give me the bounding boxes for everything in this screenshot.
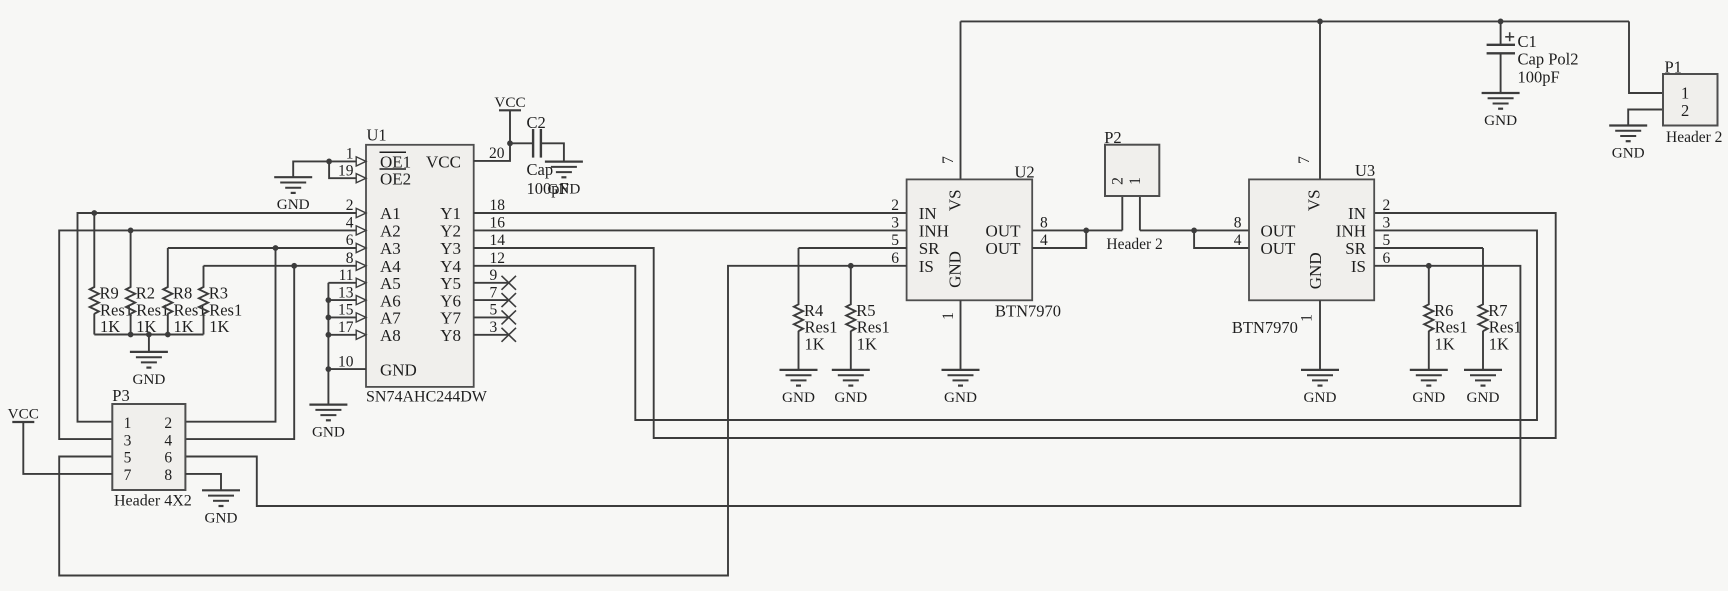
ground: U1 GND bbox=[309, 405, 347, 441]
svg-text:Y1: Y1 bbox=[440, 204, 461, 223]
ground: C2 GND bbox=[545, 162, 583, 198]
svg-text:4: 4 bbox=[1234, 232, 1242, 249]
ground: R6 GND bbox=[1410, 370, 1448, 406]
ground: pull-resistor GND bbox=[130, 352, 168, 388]
wire: net A3 (R8 - U1.A3) bbox=[168, 247, 356, 249]
wire: net Y2 (U1.Y2 - U2.INH) bbox=[474, 229, 907, 231]
wire: net A1 (P3.1 - R9 - U1.A1) bbox=[78, 213, 357, 422]
svg-text:Y5: Y5 bbox=[440, 274, 461, 293]
capacitor C2 (Cap 100pF) bbox=[527, 113, 569, 198]
wire: U1 OE2 (pin 19) tied to OE1 bbox=[329, 161, 356, 178]
ground: R5 GND bbox=[832, 370, 870, 406]
wire: P3 pin 7 to VCC bbox=[23, 422, 112, 474]
junction: rail/R2 bbox=[128, 332, 134, 338]
svg-text:GND: GND bbox=[945, 251, 964, 288]
svg-text:A5: A5 bbox=[380, 274, 401, 293]
svg-text:GND: GND bbox=[1467, 389, 1500, 406]
svg-text:5: 5 bbox=[490, 302, 498, 319]
junction: A4/P3.4 riser bbox=[291, 263, 297, 269]
wire: U3 GND pin 1 to ground bbox=[1319, 300, 1321, 370]
svg-text:A7: A7 bbox=[380, 309, 401, 328]
svg-text:U1: U1 bbox=[367, 126, 387, 145]
svg-text:INH: INH bbox=[1336, 222, 1366, 241]
junction: OE1/OE2 tie bbox=[326, 159, 332, 165]
junction: rail/R8 bbox=[165, 332, 171, 338]
svg-text:GND: GND bbox=[944, 389, 977, 406]
wire: net A2 (P3.3 - R2 - U1.A2) bbox=[59, 230, 356, 439]
junction: A2/R2 bbox=[128, 228, 134, 234]
wire: net A4 (R3 - U1.A4) bbox=[204, 265, 357, 267]
svg-text:VCC: VCC bbox=[426, 153, 461, 172]
wire: P1 pin 2 to ground bbox=[1628, 110, 1663, 126]
label: U3 designator bbox=[1355, 161, 1375, 180]
svg-text:IN: IN bbox=[919, 204, 937, 223]
junction: VCC / C2 tap bbox=[507, 140, 513, 146]
svg-text:17: 17 bbox=[338, 319, 354, 336]
svg-text:3: 3 bbox=[891, 215, 899, 232]
ground: R7 GND bbox=[1464, 370, 1502, 406]
svg-text:OE2: OE2 bbox=[380, 169, 411, 188]
svg-text:P1: P1 bbox=[1665, 58, 1682, 77]
label: U1 part number bbox=[366, 388, 488, 405]
IC U1 SN74AHC244DW body bbox=[356, 145, 474, 387]
connector P1 (Header 2) bbox=[1663, 58, 1722, 146]
svg-text:4: 4 bbox=[346, 215, 354, 232]
IC U2 BTN7970 body bbox=[907, 179, 1033, 300]
svg-text:5: 5 bbox=[124, 450, 132, 467]
power: VCC symbol at P3 bbox=[8, 406, 39, 423]
wire: C2 right plate to ground bbox=[541, 143, 564, 161]
svg-text:VCC: VCC bbox=[494, 94, 525, 111]
svg-text:A1: A1 bbox=[380, 204, 401, 223]
svg-text:3: 3 bbox=[490, 319, 498, 336]
pin numbers: U3 bbox=[1234, 156, 1391, 322]
ground: P1 GND bbox=[1609, 126, 1647, 162]
svg-text:U3: U3 bbox=[1355, 161, 1375, 180]
svg-text:OUT: OUT bbox=[1261, 239, 1297, 258]
junction: top rail / U3 VS bbox=[1317, 19, 1323, 25]
svg-text:GND: GND bbox=[1612, 145, 1645, 162]
wire: P3 pin 8 to ground bbox=[185, 474, 221, 490]
svg-text:Y3: Y3 bbox=[440, 239, 461, 258]
svg-text:5: 5 bbox=[891, 232, 899, 249]
svg-text:GND: GND bbox=[277, 196, 310, 213]
pin numbers: U1 right side bbox=[489, 145, 505, 336]
svg-text:2: 2 bbox=[891, 197, 899, 214]
svg-text:2: 2 bbox=[1383, 197, 1391, 214]
svg-text:IN: IN bbox=[1348, 204, 1366, 223]
wire: net IS3 (U3.IS - R6 - P3.6) bbox=[185, 266, 1520, 506]
svg-text:7: 7 bbox=[940, 156, 957, 164]
svg-text:1: 1 bbox=[940, 312, 957, 320]
svg-text:1K: 1K bbox=[857, 334, 877, 353]
svg-text:1K: 1K bbox=[100, 317, 120, 336]
ground: U2 GND bbox=[942, 370, 980, 406]
pin numbers: U2 bbox=[891, 156, 1048, 320]
svg-text:VS: VS bbox=[1305, 189, 1324, 211]
ground: P3 GND bbox=[202, 490, 240, 526]
wire: net SR3 (U3.SR - R7) bbox=[1374, 247, 1483, 249]
svg-text:Header 2: Header 2 bbox=[1106, 236, 1162, 253]
svg-text:GND: GND bbox=[312, 424, 345, 441]
connector P3 (Header 4X2) bbox=[112, 386, 191, 510]
wire: P1 pin 1 feed from top rail bbox=[1629, 21, 1663, 93]
junction: rail/GND drop bbox=[146, 332, 152, 338]
svg-text:1: 1 bbox=[1127, 177, 1144, 185]
svg-text:C1: C1 bbox=[1518, 32, 1537, 51]
svg-text:14: 14 bbox=[490, 232, 506, 249]
svg-text:GND: GND bbox=[205, 509, 238, 526]
svg-text:Header 2: Header 2 bbox=[1666, 129, 1722, 146]
junction: bus/GND pin 10 bbox=[326, 366, 332, 372]
svg-text:IS: IS bbox=[1351, 257, 1366, 276]
svg-text:OUT: OUT bbox=[1261, 222, 1297, 241]
svg-text:20: 20 bbox=[489, 145, 505, 162]
svg-text:8: 8 bbox=[164, 467, 172, 484]
svg-text:13: 13 bbox=[338, 284, 354, 301]
svg-text:1K: 1K bbox=[1435, 334, 1455, 353]
junction: bus/A8 bbox=[326, 332, 332, 338]
svg-text:OUT: OUT bbox=[986, 239, 1022, 258]
svg-text:8: 8 bbox=[1234, 215, 1242, 232]
wire: net OUT2 (U2.OUT8/OUT4 - P2.2) bbox=[1032, 230, 1122, 248]
svg-text:IS: IS bbox=[919, 257, 934, 276]
svg-text:A6: A6 bbox=[380, 291, 401, 310]
ground: R4 GND bbox=[780, 370, 818, 406]
resistor R6 (Res1 1K) bbox=[1424, 266, 1467, 370]
IC U3 BTN7970 body bbox=[1249, 179, 1374, 300]
svg-text:BTN7970: BTN7970 bbox=[995, 302, 1061, 321]
svg-text:A2: A2 bbox=[380, 222, 401, 241]
svg-text:GND: GND bbox=[782, 389, 815, 406]
svg-text:1: 1 bbox=[346, 146, 354, 163]
wire: net Y1 (U1.Y1 - U2.IN) bbox=[474, 212, 907, 214]
svg-text:10: 10 bbox=[338, 353, 354, 370]
wire: U1 A5-A8 and GND pin 10 tied to ground bus bbox=[328, 283, 366, 405]
junction: OUT2 tie bbox=[1083, 228, 1089, 234]
svg-text:BTN7970: BTN7970 bbox=[1232, 318, 1298, 337]
svg-text:2: 2 bbox=[1681, 101, 1689, 120]
svg-text:8: 8 bbox=[1040, 215, 1048, 232]
svg-text:12: 12 bbox=[490, 250, 506, 267]
junction: IS2/R5 bbox=[848, 263, 854, 269]
wire: net IS2 (P3.5 - R5 - U2.IS) bbox=[59, 266, 906, 576]
svg-text:1K: 1K bbox=[209, 317, 229, 336]
svg-text:VCC: VCC bbox=[8, 406, 39, 423]
resistor R7 (Res1 1K) bbox=[1478, 248, 1521, 370]
svg-text:Y8: Y8 bbox=[440, 326, 461, 345]
svg-text:3: 3 bbox=[124, 432, 132, 449]
svg-text:GND: GND bbox=[132, 371, 165, 388]
ground: U1 OE GND bbox=[274, 177, 312, 213]
svg-text:Y2: Y2 bbox=[440, 222, 461, 241]
svg-text:INH: INH bbox=[919, 222, 949, 241]
svg-text:3: 3 bbox=[1383, 215, 1391, 232]
resistor R9 (Res1 1K) bbox=[90, 213, 133, 336]
svg-text:16: 16 bbox=[490, 215, 506, 232]
svg-text:GND: GND bbox=[380, 360, 417, 379]
junction: A1/R9 bbox=[91, 210, 97, 216]
svg-text:4: 4 bbox=[164, 432, 172, 449]
wire: net OUT3 (P2.1 - U3.OUT8/OUT4) bbox=[1140, 230, 1249, 248]
junction: top rail / C1 bbox=[1498, 19, 1504, 25]
wire: P3 pin 4 riser to net A4 bbox=[185, 266, 294, 439]
wire: U1 Y5-Y8 no-connect stubs with X marks bbox=[474, 276, 516, 342]
junction: IS3/R6 bbox=[1426, 263, 1432, 269]
svg-text:7: 7 bbox=[490, 284, 498, 301]
wire: U2 GND pin 1 to ground bbox=[960, 300, 962, 370]
svg-text:VS: VS bbox=[945, 189, 964, 211]
svg-text:Cap: Cap bbox=[527, 160, 554, 179]
svg-text:A8: A8 bbox=[380, 326, 401, 345]
resistor R2 (Res1 1K) bbox=[126, 230, 169, 336]
svg-text:SR: SR bbox=[919, 239, 940, 258]
svg-text:OUT: OUT bbox=[986, 222, 1022, 241]
svg-text:Y6: Y6 bbox=[440, 291, 461, 310]
label: U2 designator bbox=[1015, 163, 1035, 182]
wire: resistor common rail to GND bbox=[94, 335, 203, 352]
resistor R8 (Res1 1K) bbox=[163, 248, 206, 336]
svg-text:GND: GND bbox=[1304, 389, 1337, 406]
svg-text:2: 2 bbox=[1110, 177, 1127, 185]
wire: U2 VS riser (pin 7) to top rail bbox=[960, 21, 962, 179]
svg-text:100pF: 100pF bbox=[1518, 67, 1560, 86]
svg-text:1: 1 bbox=[1299, 314, 1316, 322]
svg-text:Y7: Y7 bbox=[440, 309, 461, 328]
wire: U1 VCC pin 20 riser bbox=[474, 110, 510, 161]
wire: VCC tap to C2 left plate bbox=[510, 142, 533, 144]
wire: P2 pin 2 lead bbox=[1121, 196, 1123, 230]
svg-text:SR: SR bbox=[1345, 239, 1366, 258]
svg-text:11: 11 bbox=[339, 267, 354, 284]
wire: P2 pin 1 lead bbox=[1139, 196, 1141, 230]
wire: P3 pin 2 riser to net A3 bbox=[185, 248, 275, 422]
svg-text:GND: GND bbox=[1484, 112, 1517, 129]
svg-text:GND: GND bbox=[834, 389, 867, 406]
svg-text:6: 6 bbox=[164, 450, 172, 467]
svg-text:P3: P3 bbox=[112, 386, 129, 405]
svg-text:8: 8 bbox=[346, 250, 354, 267]
label: U2 part number bbox=[995, 302, 1061, 321]
label: U3 part number bbox=[1232, 318, 1298, 337]
wire: net Y3 (U1.Y3 - U3.IN) bbox=[474, 213, 1556, 438]
svg-text:C2: C2 bbox=[527, 113, 546, 132]
resistor R3 (Res1 1K) bbox=[199, 266, 242, 336]
svg-text:9: 9 bbox=[490, 267, 498, 284]
svg-text:Header 4X2: Header 4X2 bbox=[114, 493, 192, 510]
svg-text:7: 7 bbox=[1296, 156, 1313, 164]
svg-text:18: 18 bbox=[490, 197, 506, 214]
svg-text:U2: U2 bbox=[1015, 163, 1035, 182]
power: VCC symbol above U1 bbox=[494, 94, 525, 111]
svg-text:7: 7 bbox=[124, 467, 132, 484]
svg-text:2: 2 bbox=[346, 197, 354, 214]
svg-text:6: 6 bbox=[1383, 250, 1391, 267]
svg-text:1K: 1K bbox=[1489, 334, 1509, 353]
svg-text:1: 1 bbox=[124, 415, 132, 432]
svg-text:1K: 1K bbox=[174, 317, 194, 336]
svg-text:6: 6 bbox=[891, 250, 899, 267]
svg-text:SN74AHC244DW: SN74AHC244DW bbox=[366, 388, 488, 405]
wire: net Y4 (U1.Y4 - U3.INH) bbox=[474, 230, 1537, 420]
svg-text:A3: A3 bbox=[380, 239, 401, 258]
pin numbers: U1 left side bbox=[338, 146, 354, 371]
svg-text:1K: 1K bbox=[805, 334, 825, 353]
junction: OUT3 tie bbox=[1191, 228, 1197, 234]
ground: U3 GND bbox=[1301, 370, 1339, 406]
svg-text:1: 1 bbox=[1681, 84, 1689, 103]
svg-text:Cap Pol2: Cap Pol2 bbox=[1518, 50, 1579, 69]
svg-text:2: 2 bbox=[164, 415, 172, 432]
svg-text:4: 4 bbox=[1040, 232, 1048, 249]
resistor R5 (Res1 1K) bbox=[846, 266, 890, 370]
svg-text:P2: P2 bbox=[1104, 128, 1121, 147]
wire: VCC supply top rail from U2 VS to P1 bbox=[961, 20, 1630, 22]
wire: C1 negative plate to ground bbox=[1500, 53, 1502, 93]
connector P2 (Header 2) bbox=[1104, 128, 1163, 253]
svg-text:GND: GND bbox=[1412, 389, 1445, 406]
junction: bus/A6 bbox=[326, 297, 332, 303]
wire: net SR2 (R4 - U2.SR) bbox=[799, 247, 907, 249]
wire: top rail down to C1 positive plate bbox=[1500, 21, 1502, 44]
svg-text:5: 5 bbox=[1383, 232, 1391, 249]
resistor R4 (Res1 1K) bbox=[794, 248, 838, 370]
svg-text:19: 19 bbox=[338, 162, 354, 179]
junction: bus/A7 bbox=[326, 315, 332, 321]
junction: A3/P3.2 riser bbox=[273, 245, 279, 251]
capacitor C1 (Cap Pol2 100pF) bbox=[1487, 32, 1579, 87]
svg-text:GND: GND bbox=[1306, 252, 1325, 289]
ground: C1 GND bbox=[1482, 93, 1520, 129]
svg-text:6: 6 bbox=[346, 232, 354, 249]
svg-text:15: 15 bbox=[338, 302, 354, 319]
svg-text:GND: GND bbox=[547, 181, 580, 198]
wire: U3 VS riser (pin 7) to top rail bbox=[1319, 21, 1321, 179]
label: U1 designator bbox=[367, 126, 387, 145]
wire: U1 OE1 (pin 1) to GND bbox=[293, 161, 356, 177]
